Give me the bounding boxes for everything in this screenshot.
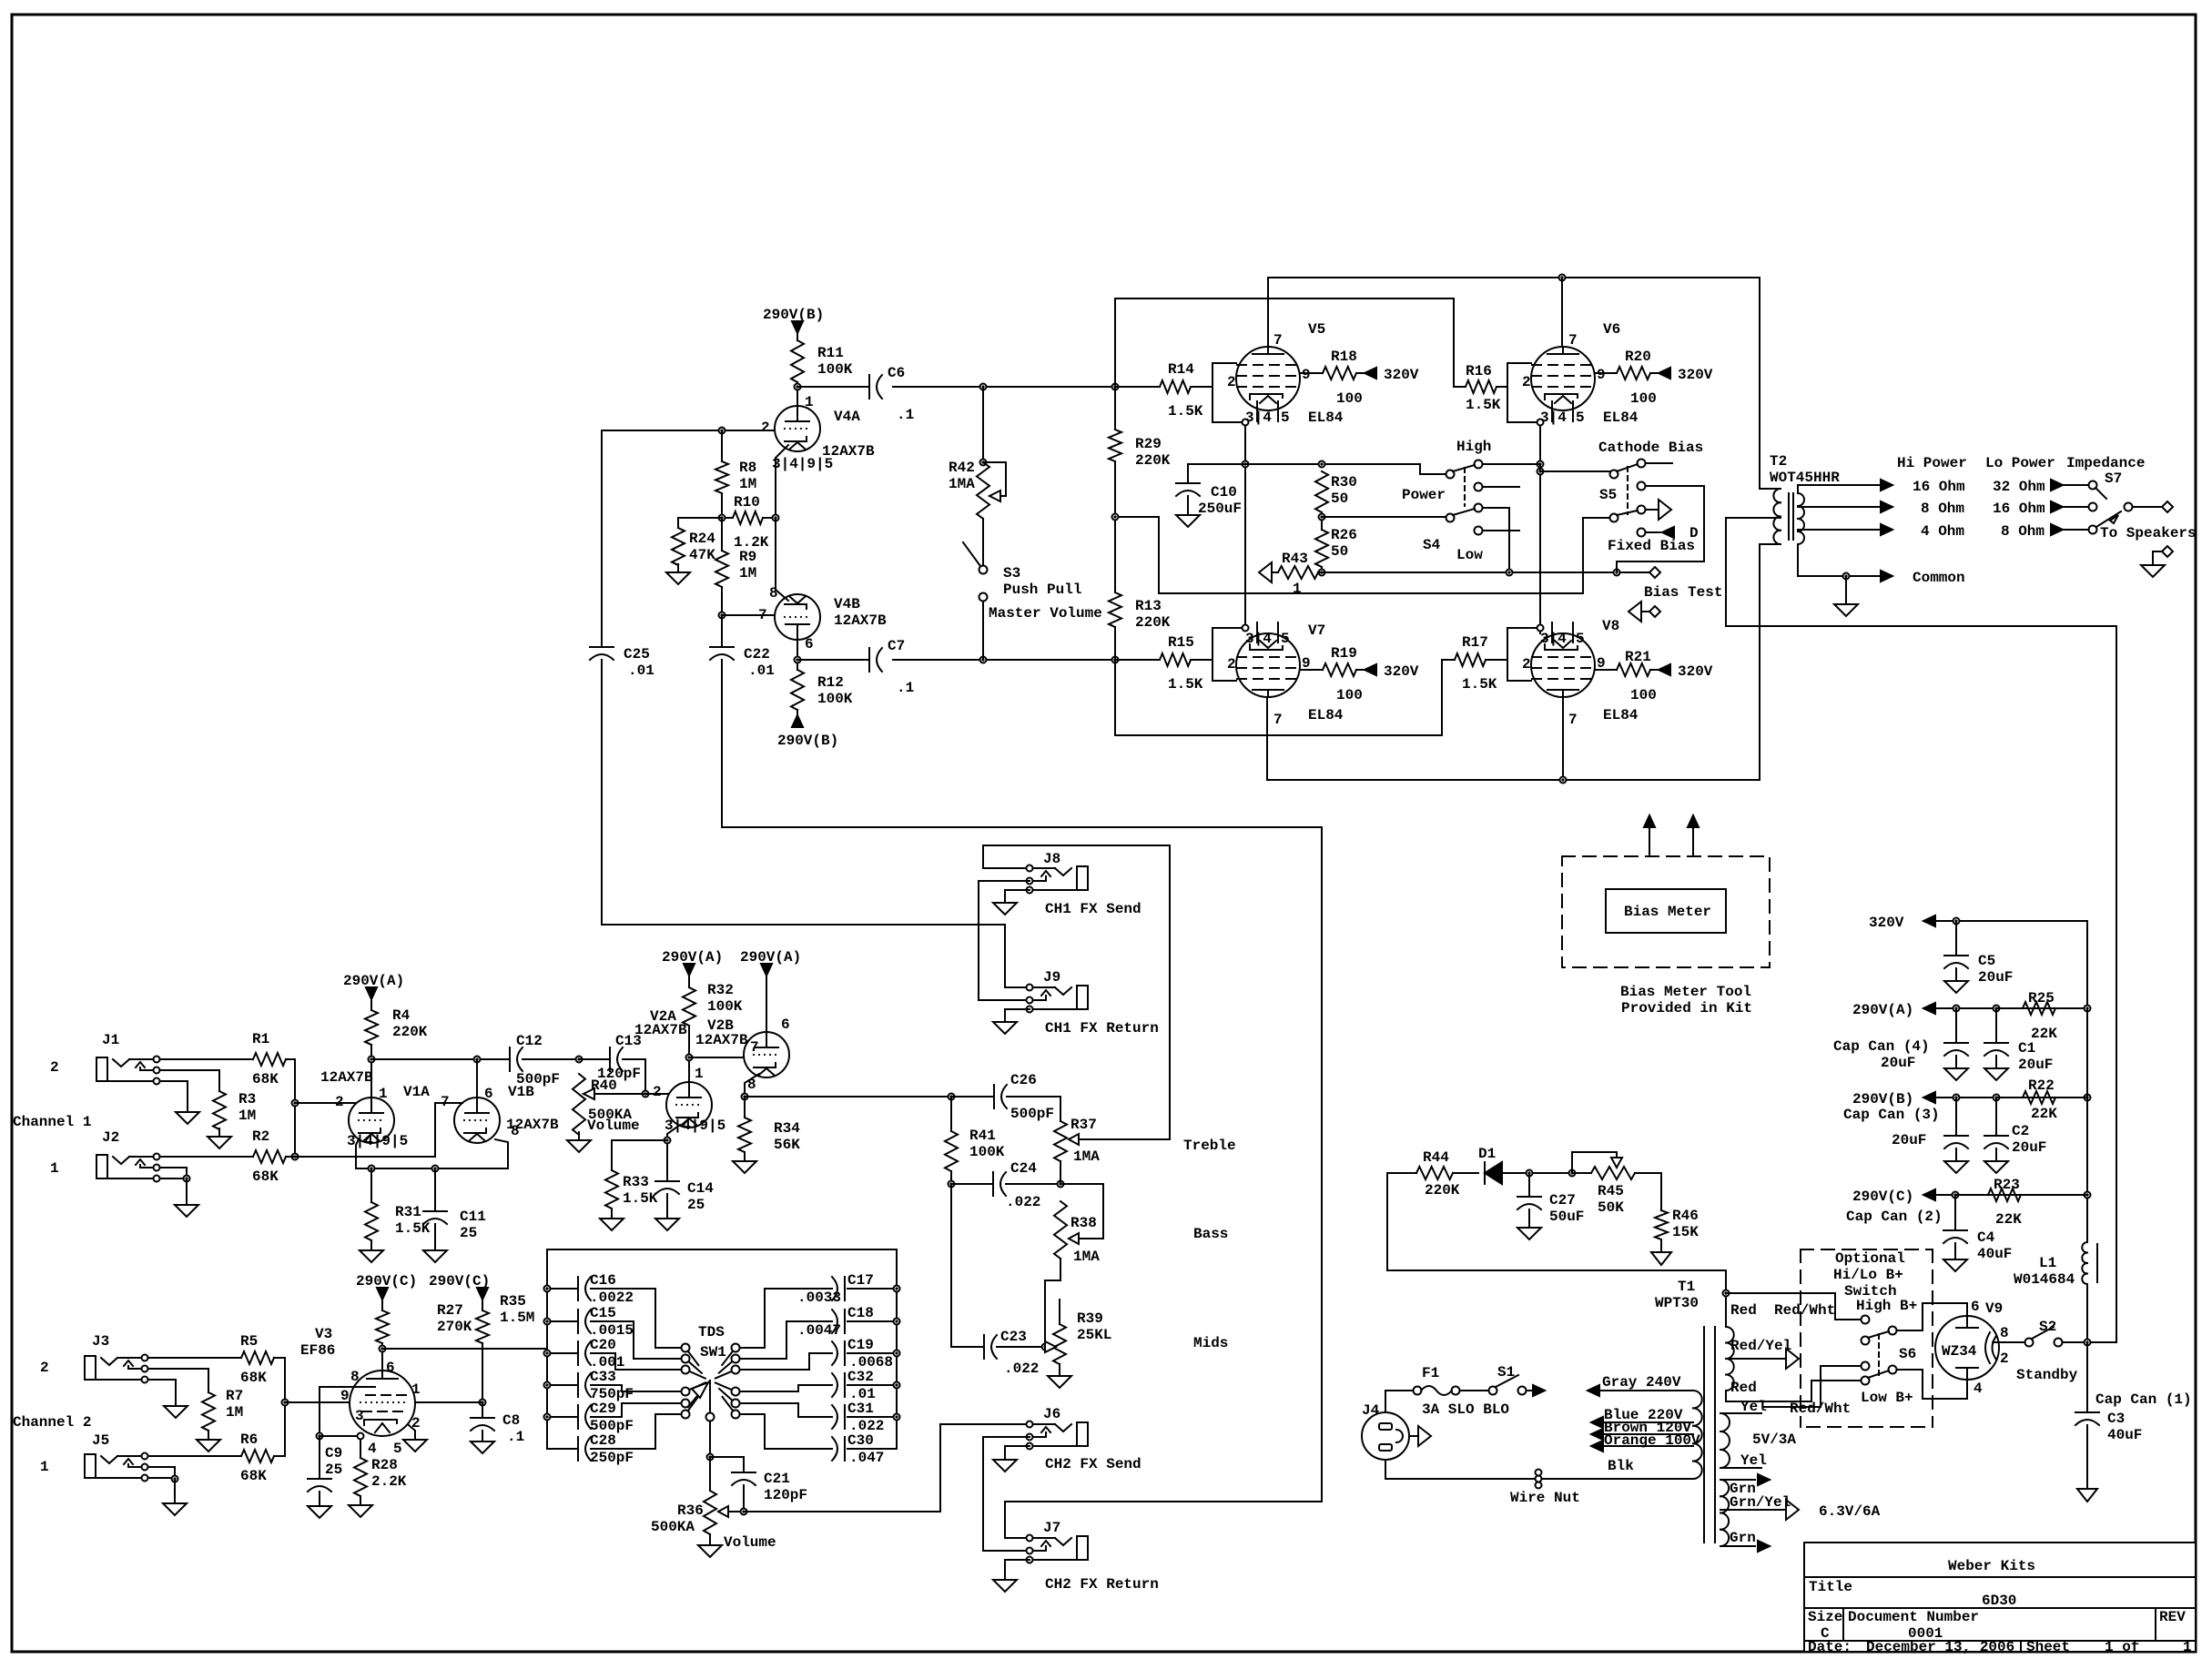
svg-text:D1: D1 — [1478, 1146, 1496, 1162]
svg-text:68K: 68K — [240, 1370, 267, 1386]
capacitor C2 — [1984, 1098, 2046, 1156]
svg-text:1: 1 — [805, 394, 814, 410]
svg-text:R4: R4 — [392, 1007, 411, 1024]
svg-text:CH2 FX Send: CH2 FX Send — [1045, 1456, 1142, 1472]
capacitor C24 — [993, 1160, 1040, 1210]
svg-text:R25: R25 — [2028, 990, 2055, 1007]
svg-text:8 Ohm: 8 Ohm — [1921, 501, 1964, 517]
svg-text:V5: V5 — [1308, 321, 1325, 338]
capacitor C9 — [308, 1436, 342, 1492]
ground R46 — [1651, 1239, 1671, 1265]
capacitor C30 — [740, 1414, 897, 1466]
wire R35 to C8 node — [480, 1343, 486, 1406]
capacitor C26 — [994, 1072, 1054, 1122]
wire V2B grid — [689, 1057, 744, 1058]
resistor R43 — [1259, 551, 1322, 597]
label Red/Wht top — [1774, 1302, 1835, 1319]
wire nut — [1510, 1470, 1580, 1507]
ground J2 — [175, 1197, 198, 1217]
svg-text:V8: V8 — [1602, 618, 1619, 634]
transformer T2 secondary — [1770, 453, 1840, 544]
wire V2A cathode net — [612, 1125, 680, 1170]
label optional hi/lo switch — [1833, 1250, 1905, 1300]
pentode V3 EF86 — [350, 1371, 415, 1436]
wire J9 sleeve — [1005, 1009, 1030, 1018]
wire ladder C6 node — [1114, 386, 1116, 388]
ground C27 — [1517, 1209, 1541, 1239]
resistor R30 — [1315, 471, 1357, 512]
wire V6 cathode drop — [1537, 426, 1544, 633]
svg-text:R19: R19 — [1331, 645, 1357, 662]
ground C3 — [2077, 1425, 2097, 1502]
wire J3 sleeve — [149, 1380, 176, 1402]
net open arrow S5 — [1646, 500, 1671, 520]
svg-text:C18: C18 — [847, 1305, 874, 1321]
transformer T1 labels — [1655, 1279, 1699, 1311]
svg-text:40uF: 40uF — [2107, 1427, 2142, 1443]
ground R36 — [698, 1534, 722, 1557]
svg-text:100: 100 — [1336, 687, 1363, 703]
wire V4B top to R10 — [776, 518, 788, 601]
wire V5 cathode drop — [1243, 426, 1249, 628]
label V3 EF86 — [300, 1326, 335, 1359]
svg-text:1: 1 — [695, 1066, 704, 1082]
title block — [1804, 1543, 2196, 1655]
ground R34 — [733, 1152, 756, 1173]
wire R36 wiper to J6 — [728, 1424, 1030, 1515]
svg-text:6D30: 6D30 — [1982, 1593, 2016, 1609]
svg-text:250uF: 250uF — [1198, 501, 1242, 517]
svg-text:1M: 1M — [238, 1108, 256, 1124]
svg-text:R43: R43 — [1282, 551, 1308, 567]
wire J5 sleeve — [149, 1467, 178, 1500]
svg-text:15K: 15K — [1672, 1224, 1699, 1240]
svg-text:C19: C19 — [847, 1337, 874, 1353]
svg-text:R37: R37 — [1070, 1117, 1097, 1133]
capacitor C16 — [544, 1272, 682, 1348]
svg-text:To Speakers: To Speakers — [2100, 525, 2197, 541]
svg-text:R45: R45 — [1598, 1183, 1624, 1199]
connector J9 FX return jack — [1027, 969, 1089, 1013]
wire tone stack bus — [547, 1249, 897, 1449]
label Bass — [1193, 1226, 1228, 1242]
wire V1 plate rail — [369, 1045, 504, 1098]
wire R26 bottom node — [1319, 567, 1325, 576]
svg-text:12AX7B: 12AX7B — [320, 1069, 373, 1086]
svg-text:3|4|9|5: 3|4|9|5 — [772, 456, 833, 472]
wire V5 grid bracket — [1213, 363, 1249, 426]
capacitor Cap Can 3 — [1944, 1098, 1968, 1148]
wire SW1 wiper out — [707, 1421, 714, 1461]
svg-text:R20: R20 — [1625, 349, 1651, 365]
svg-text:V3: V3 — [315, 1326, 332, 1342]
power net 290V(C) right — [1852, 1189, 2091, 1205]
svg-text:CH2 FX Return: CH2 FX Return — [1045, 1576, 1159, 1593]
svg-text:Volume: Volume — [587, 1118, 640, 1134]
svg-text:5: 5 — [1576, 631, 1585, 647]
svg-text:R46: R46 — [1672, 1208, 1699, 1224]
bias meter dashed box — [1562, 856, 1770, 967]
resistor R10 — [719, 493, 779, 551]
ground R7 — [197, 1431, 220, 1452]
svg-text:220K: 220K — [1425, 1182, 1460, 1199]
resistor R33 — [605, 1170, 658, 1209]
ground J7 — [993, 1572, 1159, 1593]
ground C14 — [655, 1194, 679, 1230]
svg-text:1M: 1M — [226, 1404, 243, 1421]
connector J8 FX send jack — [1027, 851, 1089, 894]
label Red top — [1730, 1302, 1757, 1319]
svg-text:Hi Power: Hi Power — [1897, 455, 1967, 471]
svg-text:S4: S4 — [1423, 537, 1441, 553]
capacitor C17 — [740, 1272, 900, 1348]
svg-text:C8: C8 — [502, 1412, 520, 1429]
label Low B+ — [1861, 1390, 1913, 1406]
svg-text:R21: R21 — [1625, 649, 1651, 665]
svg-text:20uF: 20uF — [2018, 1057, 2053, 1073]
svg-text:5: 5 — [1576, 410, 1585, 426]
svg-text:1.5K: 1.5K — [1168, 403, 1203, 420]
svg-text:TDS: TDS — [698, 1324, 725, 1340]
capacitor C25 — [590, 430, 654, 679]
wire C12 to node — [523, 1057, 583, 1063]
svg-text:.01: .01 — [628, 663, 654, 679]
svg-text:EF86: EF86 — [300, 1342, 335, 1359]
resistor R34 — [738, 1097, 800, 1153]
label Red bottom — [1730, 1380, 1757, 1396]
svg-text:T1: T1 — [1678, 1279, 1695, 1295]
wire R27 to V3 plate — [380, 1343, 386, 1371]
svg-text:Bias Test: Bias Test — [1644, 584, 1722, 601]
resistor R7 — [202, 1369, 243, 1431]
svg-text:Low: Low — [1456, 547, 1483, 563]
potentiometer R45 — [1572, 1152, 1661, 1216]
power net 320V at R21 — [1659, 663, 1713, 680]
switch SW1 TDS rotary — [682, 1324, 740, 1421]
svg-text:REV: REV — [2159, 1609, 2186, 1625]
svg-text:C22: C22 — [744, 646, 770, 663]
ground J3 — [164, 1398, 188, 1418]
resistor R27 — [376, 1300, 472, 1343]
svg-text:C29: C29 — [590, 1401, 616, 1417]
svg-text:J3: J3 — [92, 1333, 109, 1350]
ground C2 — [1984, 1148, 2008, 1173]
svg-text:1MA: 1MA — [1073, 1249, 1100, 1265]
wire J2 sleeve — [161, 1168, 190, 1201]
potentiometer R40 volume — [573, 1074, 645, 1135]
svg-text:68K: 68K — [240, 1468, 267, 1484]
svg-text:6: 6 — [805, 636, 814, 652]
svg-text:3A SLO BLO: 3A SLO BLO — [1422, 1401, 1509, 1418]
svg-text:V1A: V1A — [403, 1084, 430, 1100]
svg-text:R34: R34 — [774, 1120, 800, 1137]
wire left ladder vertical — [1114, 298, 1116, 735]
svg-text:2: 2 — [1227, 374, 1236, 390]
wire bias loop left — [1386, 1173, 1388, 1270]
svg-text:Gray 240V: Gray 240V — [1602, 1374, 1681, 1391]
capacitor C11 — [423, 1168, 486, 1241]
switch S5 cathode/fixed bias — [1598, 440, 1703, 554]
resistor R18 — [1300, 349, 1365, 407]
svg-text:C1: C1 — [2018, 1040, 2035, 1057]
svg-text:Red: Red — [1730, 1380, 1757, 1396]
svg-text:1.5K: 1.5K — [1462, 676, 1497, 693]
resistor R8 — [715, 430, 756, 493]
resistor R17 — [1442, 634, 1507, 693]
svg-text:EL84: EL84 — [1308, 410, 1344, 426]
wire J4 neutral — [1385, 1460, 1386, 1479]
svg-text:500pF: 500pF — [516, 1071, 560, 1087]
svg-text:100: 100 — [1630, 390, 1657, 407]
svg-text:47K: 47K — [689, 547, 715, 563]
ground C4 — [1943, 1243, 1967, 1271]
svg-text:22K: 22K — [2031, 1106, 2057, 1122]
switch S7 impedance — [2089, 470, 2133, 534]
svg-text:.0033: .0033 — [797, 1290, 841, 1306]
wire T2 center tap — [1726, 517, 1781, 519]
label pin 8 V1B — [511, 1123, 520, 1139]
ground J9 — [993, 1014, 1159, 1037]
svg-text:S1: S1 — [1497, 1364, 1515, 1381]
svg-text:WOT45HHR: WOT45HHR — [1770, 470, 1840, 486]
switch S3 — [963, 519, 1102, 622]
wire C6 line — [797, 384, 1119, 390]
connector J5 input jack — [40, 1432, 148, 1482]
svg-text:J8: J8 — [1043, 851, 1060, 867]
svg-text:December 13, 2006: December 13, 2006 — [1866, 1639, 2014, 1655]
svg-text:2: 2 — [1522, 374, 1531, 390]
svg-text:Date:: Date: — [1808, 1639, 1852, 1655]
transformer T2 primary — [1773, 489, 1781, 544]
svg-text:.1: .1 — [507, 1429, 524, 1445]
svg-text:Master Volume: Master Volume — [989, 605, 1102, 622]
wire J4 hot to fuse — [1385, 1391, 1413, 1412]
svg-text:7: 7 — [1273, 332, 1283, 349]
wire V4B plate node — [795, 640, 801, 670]
capacitor C15 — [544, 1305, 682, 1359]
ground C11 — [423, 1224, 447, 1262]
svg-text:SW1: SW1 — [700, 1344, 726, 1361]
svg-text:F1: F1 — [1422, 1365, 1439, 1381]
svg-text:1.5K: 1.5K — [1466, 397, 1501, 413]
svg-text:50K: 50K — [1598, 1199, 1624, 1216]
wire 8 ohm tap — [1798, 506, 1881, 508]
svg-text:R35: R35 — [500, 1293, 526, 1310]
svg-text:C7: C7 — [888, 638, 905, 654]
wire V2B cathode out — [742, 1074, 760, 1100]
label cap can 3 — [1843, 1107, 1940, 1148]
power net 290V(A) V1 — [343, 973, 404, 999]
svg-text:Cap Can (2): Cap Can (2) — [1846, 1209, 1943, 1225]
wire V2A plate node — [686, 1026, 746, 1083]
svg-text:Power: Power — [1402, 487, 1446, 503]
svg-text:1: 1 — [411, 1381, 421, 1398]
svg-text:Bias Meter: Bias Meter — [1624, 904, 1711, 920]
svg-text:R44: R44 — [1423, 1149, 1449, 1166]
wire V2B output line — [745, 1094, 994, 1100]
svg-text:C17: C17 — [847, 1272, 874, 1289]
svg-text:2: 2 — [1522, 656, 1531, 673]
svg-text:6: 6 — [1971, 1299, 1980, 1315]
svg-text:R6: R6 — [240, 1431, 258, 1448]
svg-text:V4A: V4A — [834, 409, 860, 425]
svg-text:C4: C4 — [1977, 1229, 1995, 1246]
svg-text:R32: R32 — [707, 982, 734, 998]
resistor R4 — [365, 999, 428, 1045]
wire C22 to J7 tip — [722, 660, 1322, 1538]
svg-text:C24: C24 — [1010, 1160, 1037, 1177]
capacitor C23 — [984, 1329, 1039, 1377]
svg-text:6: 6 — [386, 1360, 395, 1376]
wire V4A grid line — [602, 428, 775, 434]
svg-text:68K: 68K — [252, 1071, 279, 1087]
svg-text:3|4: 3|4 — [1540, 631, 1567, 647]
svg-text:.01: .01 — [748, 663, 775, 679]
svg-text:R38: R38 — [1070, 1215, 1097, 1231]
capacitor C27 — [1517, 1173, 1584, 1225]
svg-text:Grn/Yel: Grn/Yel — [1730, 1494, 1791, 1511]
svg-text:1.5K: 1.5K — [623, 1190, 658, 1207]
svg-text:290V(B): 290V(B) — [1852, 1091, 1913, 1108]
capacitor C29 — [544, 1401, 682, 1434]
svg-text:25KL: 25KL — [1077, 1327, 1111, 1343]
svg-text:2: 2 — [50, 1059, 59, 1076]
svg-text:V4B: V4B — [834, 596, 860, 612]
svg-text:R39: R39 — [1077, 1310, 1103, 1327]
svg-text:R14: R14 — [1168, 361, 1194, 378]
svg-text:R24: R24 — [689, 531, 715, 547]
svg-text:9: 9 — [1302, 367, 1311, 383]
capacitor C33 — [544, 1369, 682, 1402]
wire red/wht to S6 high — [1726, 1293, 1861, 1320]
wire red/wht bottom — [1764, 1366, 1861, 1407]
svg-text:320V: 320V — [1678, 367, 1713, 383]
wire brown 120V tap — [1591, 1420, 1693, 1440]
label cap can 1 — [2095, 1391, 2192, 1408]
svg-text:.1: .1 — [897, 680, 914, 696]
op-amp V2B triode — [695, 1017, 790, 1093]
wire CH1 send line — [983, 845, 1170, 868]
wire common tap — [1798, 544, 1881, 580]
svg-text:6: 6 — [781, 1017, 790, 1033]
svg-text:S6: S6 — [1899, 1346, 1916, 1362]
wire V2A grid — [645, 1093, 669, 1095]
potentiometer R36 volume — [651, 1457, 776, 1551]
wire J8 tip — [983, 867, 1026, 869]
wire J7 sleeve — [1005, 1560, 1030, 1576]
svg-text:1: 1 — [50, 1160, 59, 1177]
svg-text:R9: R9 — [739, 549, 756, 565]
svg-text:R26: R26 — [1331, 527, 1357, 543]
ground R24 — [666, 564, 690, 584]
svg-text:Size: Size — [1808, 1609, 1842, 1625]
svg-text:320V: 320V — [1384, 367, 1419, 383]
svg-text:1: 1 — [2183, 1639, 2192, 1655]
svg-text:C32: C32 — [847, 1369, 874, 1385]
power net 320V at R18 — [1365, 367, 1419, 383]
resistor R35 — [476, 1293, 534, 1343]
wire 16 ohm tap — [1798, 485, 1881, 493]
label 32 Ohm — [1993, 479, 2088, 495]
wire R9 to V4B grid — [719, 587, 725, 619]
svg-text:Push Pull: Push Pull — [1003, 582, 1081, 598]
svg-text:Cathode Bias: Cathode Bias — [1598, 440, 1703, 456]
svg-text:S2: S2 — [2039, 1319, 2056, 1335]
svg-text:.0022: .0022 — [590, 1290, 634, 1306]
connector J2 input jack — [50, 1129, 160, 1182]
svg-text:C31: C31 — [847, 1401, 874, 1417]
transistor V6 EL84 — [1522, 321, 1639, 426]
svg-text:2: 2 — [2000, 1350, 2009, 1367]
svg-text:8: 8 — [350, 1369, 360, 1385]
capacitor C32 — [740, 1369, 900, 1402]
wire plate V4A node — [795, 382, 801, 406]
svg-text:R3: R3 — [238, 1091, 256, 1108]
ground speaker return — [2141, 546, 2173, 577]
net arrow Common — [1881, 570, 1965, 586]
wire J8 ring drop to J9 ring — [979, 881, 1030, 1000]
svg-text:2: 2 — [335, 1094, 344, 1110]
svg-text:3|4|9|5: 3|4|9|5 — [665, 1118, 725, 1134]
resistor R28 — [354, 1440, 407, 1496]
capacitor Cap Can 4 — [1833, 1008, 1968, 1071]
wire V3 plate to tone stack — [382, 1348, 547, 1350]
svg-text:3|4: 3|4 — [1245, 631, 1272, 647]
capacitor C8 — [471, 1402, 524, 1445]
svg-text:C12: C12 — [516, 1033, 543, 1049]
wire V5 plate rail top — [1268, 275, 1760, 348]
resistor R23 — [1955, 1177, 2087, 1228]
svg-text:Red/Yel: Red/Yel — [1730, 1338, 1791, 1354]
svg-text:50: 50 — [1331, 491, 1348, 507]
net diamond bias test — [1644, 567, 1722, 601]
wire V1B grid path — [295, 1103, 462, 1157]
svg-text:1.5K: 1.5K — [1168, 676, 1203, 693]
svg-text:R42: R42 — [949, 460, 975, 476]
ground R33 — [600, 1209, 624, 1230]
wire to speakers — [2100, 501, 2197, 541]
capacitor C22 — [710, 615, 775, 679]
capacitor C20 — [544, 1337, 682, 1371]
wire S4 low throw down to bias line — [1483, 508, 1509, 572]
switch S1 mains — [1460, 1364, 1527, 1395]
svg-text:320V: 320V — [1384, 663, 1419, 680]
svg-text:Hi/Lo B+: Hi/Lo B+ — [1833, 1267, 1903, 1283]
svg-text:Volume: Volume — [724, 1534, 776, 1551]
svg-text:J7: J7 — [1043, 1520, 1060, 1536]
svg-text:Channel 1: Channel 1 — [13, 1114, 91, 1130]
svg-text:120pF: 120pF — [764, 1487, 807, 1503]
svg-text:EL84: EL84 — [1603, 707, 1639, 723]
label Channel 2 — [13, 1414, 91, 1431]
capacitor C13 — [579, 1033, 642, 1082]
resistor R44 — [1387, 1149, 1478, 1199]
resistor R5 — [149, 1333, 274, 1386]
wire R1 to grid node — [286, 1059, 299, 1160]
power net 320V rail — [1869, 915, 2087, 1008]
label cap can 2 — [1846, 1209, 1943, 1225]
svg-text:C25: C25 — [624, 646, 650, 663]
wire 4 ohm tap — [1798, 529, 1881, 531]
svg-text:8: 8 — [2000, 1325, 2009, 1341]
svg-text:S3: S3 — [1003, 565, 1020, 582]
ground C8 — [471, 1431, 494, 1453]
svg-text:C23: C23 — [1000, 1329, 1027, 1345]
svg-text:2: 2 — [1227, 656, 1236, 673]
wire R37 wiper from J8 line — [1079, 845, 1170, 1139]
svg-text:270K: 270K — [437, 1319, 472, 1335]
capacitor C28 — [547, 1414, 681, 1466]
